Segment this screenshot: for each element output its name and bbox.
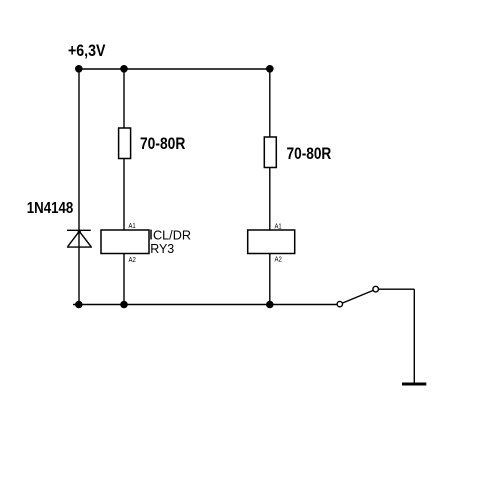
wire: ground drop vertical: [413, 289, 415, 383]
svg-text:CL/DR: CL/DR: [153, 227, 191, 242]
ground: [402, 383, 426, 386]
svg-text:A2: A2: [275, 257, 282, 264]
wire: bottom rail: [73, 304, 337, 306]
resistor R2 70-80R: [264, 137, 276, 168]
svg-text:+6,3V: +6,3V: [68, 42, 106, 60]
node: junction dot middle on top rail: [120, 65, 128, 73]
wire: switch output horizontal: [379, 288, 415, 290]
diode D1 1N4148 (cathode bar up, anode below): [67, 230, 92, 247]
svg-text:RY3: RY3: [150, 241, 174, 256]
svg-text:A1: A1: [275, 224, 282, 231]
wire: left branch vertical (diode branch): [78, 69, 80, 305]
svg-text:A1: A1: [129, 223, 136, 230]
wire: top +6.3V supply rail: [79, 68, 271, 70]
switch S1 (open lever switch): [337, 286, 378, 306]
svg-text:70-80R: 70-80R: [287, 145, 332, 163]
resistor R1 70-80R: [119, 128, 131, 159]
node: junction dot right on top rail: [266, 65, 274, 73]
wire: right branch vertical (relay K2 branch): [269, 69, 271, 305]
svg-text:70-80R: 70-80R: [140, 135, 185, 153]
node: junction dot middle on bottom rail: [120, 301, 128, 309]
relay coil K1: [101, 230, 149, 254]
node: junction dot right on bottom rail: [266, 301, 274, 309]
node: junction dot left on top rail: [75, 65, 83, 73]
relay coil K2: [248, 230, 295, 254]
label CL/DR (with leading tick): [151, 227, 191, 242]
wire: middle branch vertical (relay K1 branch): [123, 69, 125, 305]
svg-text:A2: A2: [129, 257, 136, 264]
svg-text:1N4148: 1N4148: [27, 200, 74, 217]
node: junction dot left on bottom rail: [75, 301, 83, 309]
